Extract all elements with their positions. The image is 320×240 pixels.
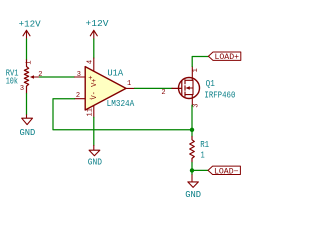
svg-text:1: 1 xyxy=(201,150,205,160)
wire feedback from source node to inverting input xyxy=(53,99,192,130)
power +12V (RV1 supply) xyxy=(19,19,42,39)
wire Q1 drain to LOAD+ xyxy=(192,57,208,67)
wire +12V to op-amp pin4 xyxy=(93,39,95,58)
power +12V (op-amp V+) xyxy=(86,19,110,39)
svg-text:+12V: +12V xyxy=(86,19,110,29)
svg-text:GND: GND xyxy=(185,190,201,200)
svg-text:4: 4 xyxy=(87,60,95,64)
potentiometer RV1 10k xyxy=(6,60,43,94)
svg-text:GND: GND xyxy=(20,128,36,138)
svg-text:+12V: +12V xyxy=(19,19,42,29)
ground (RV1) xyxy=(20,115,36,138)
svg-text:Q1: Q1 xyxy=(206,79,215,89)
svg-text:2: 2 xyxy=(38,71,42,79)
junction (LOAD- node) xyxy=(190,168,194,172)
svg-text:1: 1 xyxy=(192,68,200,72)
svg-text:2: 2 xyxy=(76,92,80,100)
wire op-amp output to Q1 gate xyxy=(135,87,173,89)
op-amp U1A LM324A xyxy=(75,58,135,117)
svg-text:1: 1 xyxy=(127,80,131,88)
wire op-amp pin11 to ground xyxy=(93,117,95,145)
svg-text:V+: V+ xyxy=(91,78,99,86)
global label LOAD+ xyxy=(208,52,240,62)
svg-text:GND: GND xyxy=(88,158,102,168)
svg-text:2: 2 xyxy=(161,89,165,97)
wire +12V to RV1 pin1 xyxy=(26,39,28,60)
ground (load return) xyxy=(185,175,201,200)
svg-text:LOAD−: LOAD− xyxy=(214,167,239,176)
global label LOAD- xyxy=(208,166,240,176)
svg-text:3: 3 xyxy=(20,85,24,93)
svg-text:IRFP460: IRFP460 xyxy=(204,90,235,100)
junction (source / feedback node) xyxy=(190,128,194,132)
wire Q1 source to R1 xyxy=(191,105,193,136)
svg-text:V-: V- xyxy=(91,91,99,99)
transistor Q1 IRFP460 xyxy=(161,67,235,108)
svg-text:R1: R1 xyxy=(200,140,209,150)
wire junction to LOAD- xyxy=(192,169,208,171)
svg-text:LOAD+: LOAD+ xyxy=(215,53,240,62)
wire RV1 pin3 to ground xyxy=(26,94,28,115)
svg-text:3: 3 xyxy=(193,103,201,107)
svg-text:10k: 10k xyxy=(6,77,18,87)
svg-text:11: 11 xyxy=(87,108,95,116)
wire RV1 wiper to op-amp non-inverting input xyxy=(40,76,75,78)
svg-text:U1A: U1A xyxy=(107,68,123,78)
resistor R1 1 xyxy=(190,137,209,163)
ground (op-amp V-) xyxy=(88,145,102,167)
wire R1 to LOAD- node and ground xyxy=(191,163,193,175)
svg-text:1: 1 xyxy=(25,60,33,64)
svg-text:3: 3 xyxy=(77,71,81,79)
svg-text:LM324A: LM324A xyxy=(107,99,135,109)
